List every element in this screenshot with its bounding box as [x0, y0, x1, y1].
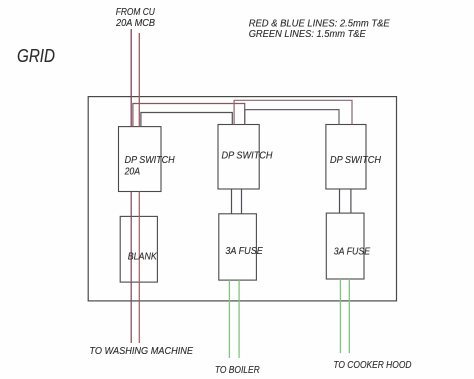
svg-text:DP SWITCH: DP SWITCH — [125, 155, 175, 166]
svg-text:DP SWITCH: DP SWITCH — [330, 155, 381, 166]
svg-text:GREEN LINES: 1.5mm T&E: GREEN LINES: 1.5mm T&E — [249, 29, 366, 40]
svg-text:3A FUSE: 3A FUSE — [334, 247, 370, 258]
svg-text:RED & BLUE LINES: 2.5mm T&E: RED & BLUE LINES: 2.5mm T&E — [249, 18, 390, 29]
svg-text:DP SWITCH: DP SWITCH — [222, 150, 273, 161]
svg-text:FROM CU: FROM CU — [116, 7, 156, 18]
svg-text:20A MCB: 20A MCB — [115, 18, 155, 29]
svg-text:GRID: GRID — [17, 45, 55, 66]
svg-text:TO BOILER: TO BOILER — [215, 365, 260, 376]
svg-text:TO WASHING MACHINE: TO WASHING MACHINE — [89, 346, 193, 357]
svg-text:TO COOKER HOOD: TO COOKER HOOD — [333, 360, 411, 371]
svg-text:3A FUSE: 3A FUSE — [225, 246, 263, 257]
svg-text:20A: 20A — [124, 166, 140, 177]
svg-text:BLANK: BLANK — [128, 251, 158, 262]
